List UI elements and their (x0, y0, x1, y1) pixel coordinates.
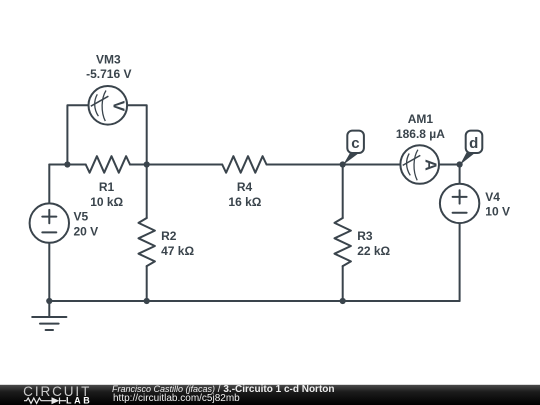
wire V4 bottom lead (459, 223, 461, 301)
wire R3 bottom lead (342, 266, 344, 301)
node d flag (460, 131, 482, 165)
svg-text:R3: R3 (357, 229, 373, 243)
svg-text:16 kΩ: 16 kΩ (228, 195, 261, 209)
wire top rail left segment (49, 164, 85, 166)
wire R2 top lead (146, 165, 148, 219)
node R1/R2 junction (144, 161, 150, 167)
voltage source V5 (30, 203, 69, 242)
voltage source V4 (440, 184, 479, 223)
svg-text:R2: R2 (161, 229, 177, 243)
footer bar (0, 384, 540, 405)
svg-text:c: c (351, 135, 359, 152)
CircuitLab logo wire + diode (24, 398, 66, 404)
wire V4 top lead (459, 165, 461, 184)
svg-text:-5.716 V: -5.716 V (86, 67, 131, 81)
wire VM3 right lead (127, 105, 147, 164)
wire R3 top lead (342, 165, 344, 219)
R3 bottom junction (340, 298, 346, 304)
wire V5 top lead (48, 165, 50, 204)
svg-text:A: A (422, 159, 439, 171)
svg-text:V5: V5 (74, 209, 89, 223)
node c junction (340, 161, 346, 167)
svg-text:V4: V4 (485, 190, 500, 204)
svg-text:20 V: 20 V (74, 225, 99, 239)
svg-text:d: d (469, 135, 478, 152)
wire VM3 left lead (67, 105, 88, 164)
svg-text:R4: R4 (237, 180, 253, 194)
svg-text:186.8 µA: 186.8 µA (396, 127, 445, 141)
svg-text:10 kΩ: 10 kΩ (90, 195, 123, 209)
svg-text:22 kΩ: 22 kΩ (357, 244, 390, 258)
wire ammeter to node d (439, 164, 459, 166)
svg-text:10 V: 10 V (485, 205, 510, 219)
svg-text:V: V (110, 101, 127, 112)
svg-text:R1: R1 (99, 180, 115, 194)
ammeter AM1 (400, 145, 439, 184)
resistor R2 (139, 218, 155, 266)
wire top rail mid segment (130, 164, 222, 166)
resistor R3 (335, 218, 351, 266)
R2 bottom junction (144, 298, 150, 304)
node VM3-left junction (64, 161, 70, 167)
wire top rail right segment (267, 164, 401, 166)
svg-text:47 kΩ: 47 kΩ (161, 244, 194, 258)
wire bottom rail (49, 300, 459, 302)
voltmeter VM3 (89, 86, 128, 125)
wire V5 bottom lead (48, 243, 50, 301)
resistor R1 (86, 156, 130, 173)
svg-text:http://circuitlab.com/c5j82mb: http://circuitlab.com/c5j82mb (113, 393, 240, 404)
node c flag (343, 131, 364, 165)
svg-text:LAB: LAB (66, 395, 92, 405)
resistor R4 (222, 156, 266, 173)
ground (32, 301, 66, 330)
wire R2 bottom lead (146, 266, 148, 301)
node d junction (457, 161, 463, 167)
svg-text:AM1: AM1 (408, 112, 434, 126)
ground junction (46, 298, 52, 304)
svg-text:VM3: VM3 (96, 52, 121, 66)
